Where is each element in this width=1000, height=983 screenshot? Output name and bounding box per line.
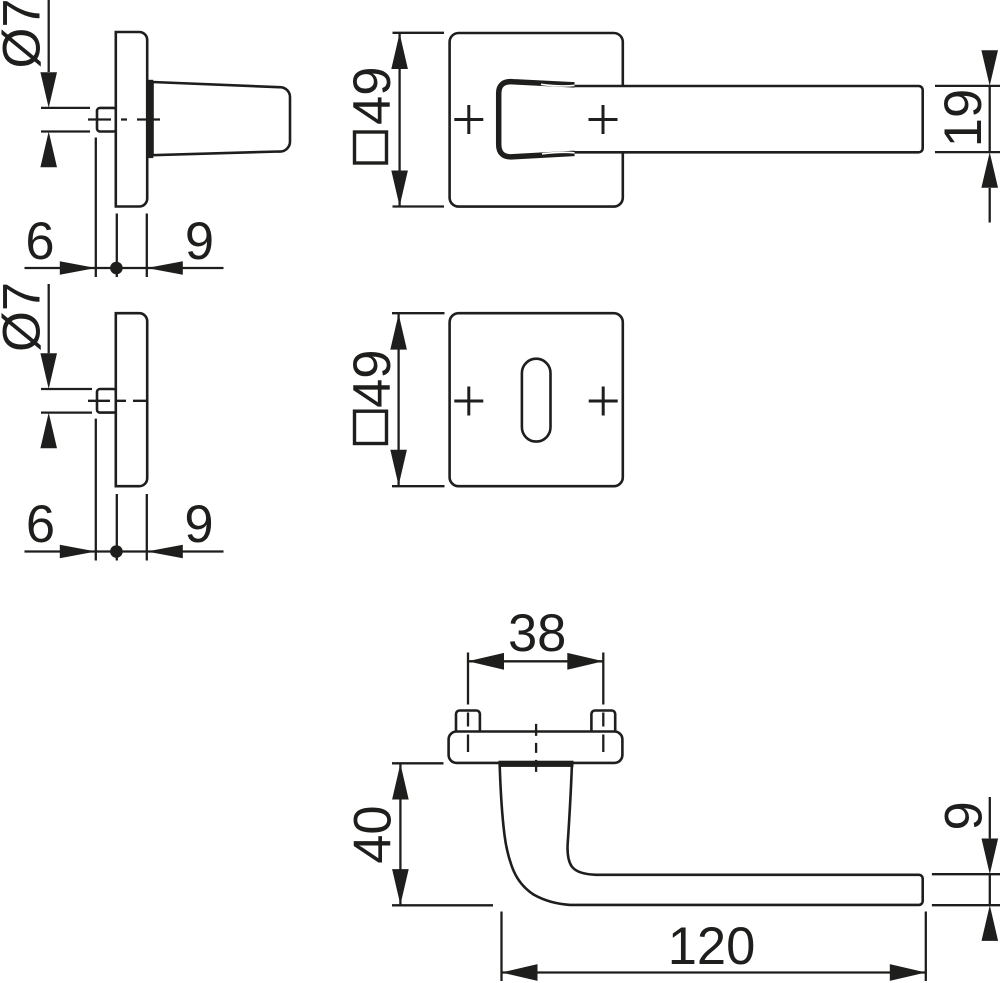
screw mark right (fig4) [589, 387, 618, 416]
svg-text:Ø7: Ø7 [0, 0, 52, 69]
extension tick bottom Ø7 (fig2) [41, 411, 92, 413]
arrow right 6 (fig2) [60, 545, 96, 559]
extension line right 120 (fig5) [925, 912, 927, 982]
arrow up Ø7 (fig1) [40, 132, 57, 168]
dim line Ø7 (fig2) [48, 284, 50, 353]
extension line bottom 19 (fig3) [935, 151, 1000, 153]
square symbol (fig4) [355, 411, 387, 443]
arrow down 49 (fig3) [391, 171, 408, 207]
vertical centerline (fig5) [535, 724, 537, 773]
arrow up 9 (fig5) [982, 905, 999, 941]
extension line post-left (fig2) [95, 419, 97, 561]
svg-text:6: 6 [25, 212, 54, 271]
grip inner edge top (fig3) [541, 84, 575, 86]
arrow left 38 (fig5) [468, 653, 504, 670]
arrow left 9 (fig2) [147, 545, 183, 559]
dim line 19 (fig3) [989, 86, 991, 152]
extension line top 49 (fig4) [392, 312, 445, 314]
arrow down Ø7 (fig2) [40, 353, 57, 389]
extension tick top Ø7 (fig1) [41, 107, 90, 109]
extension line rose-left (fig2) [116, 494, 118, 561]
arrow up 40 (fig5) [392, 764, 409, 800]
svg-text:9: 9 [935, 801, 994, 830]
centerline (fig2) [88, 400, 149, 402]
screw post left (fig5) [456, 711, 480, 733]
junction dot (fig2) [110, 545, 123, 558]
extension line top 49 (fig3) [393, 32, 445, 34]
lever bar (fig3) [574, 86, 923, 152]
dim stub below 19 (fig3) [989, 188, 991, 223]
extension line bottom 9 (fig5) [932, 904, 1000, 906]
arrow down 49 (fig4) [390, 450, 407, 486]
centerline (fig1) [88, 118, 160, 120]
square symbol (fig3) [355, 132, 387, 163]
rose plate side (fig5) [449, 732, 623, 763]
svg-text:38: 38 [508, 604, 566, 663]
arrow right 6 (fig1) [60, 261, 96, 275]
arrow up 49 (fig4) [390, 314, 407, 350]
screw post (fig2) [97, 389, 117, 413]
svg-text:120: 120 [668, 917, 756, 976]
screw mark left (fig3) [454, 105, 483, 134]
rose side profile (fig1) [116, 32, 147, 207]
arrow down 40 (fig5) [392, 869, 409, 905]
arrow right 38 (fig5) [567, 653, 603, 670]
dim line 40 (fig5) [399, 764, 401, 905]
square key rose (fig4) [450, 313, 623, 486]
svg-text:40: 40 [344, 805, 403, 863]
handle grip outline (fig3) [499, 82, 575, 157]
handle neck cone (fig1) [153, 82, 291, 155]
arrow down 19 (fig3) [981, 50, 998, 86]
extension line top 40 (fig5) [392, 762, 444, 764]
extension line top 19 (fig3) [935, 85, 1000, 87]
extension line post-left (fig1) [95, 138, 97, 278]
svg-text:49: 49 [343, 67, 402, 125]
svg-text:9: 9 [184, 495, 213, 554]
svg-text:49: 49 [343, 349, 402, 407]
grip inner edge bottom (fig3) [542, 152, 575, 154]
post centerline right / 38 extension (fig5) [602, 653, 604, 753]
square rose (fig3) [450, 33, 623, 207]
dim line 6/9 (fig1) [25, 267, 224, 269]
arrow down 9 (fig5) [982, 839, 999, 875]
dim line middle 9 (fig5) [989, 874, 991, 905]
extension line rose-right (fig2) [146, 494, 148, 561]
extension line bottom 49 (fig4) [392, 485, 445, 487]
dim line 49 (fig3) [398, 33, 400, 206]
extension line bottom 49 (fig3) [393, 205, 445, 207]
neck flange thick bar (fig5) [499, 761, 574, 767]
extension line bottom 40 (fig5) [392, 904, 493, 906]
svg-text:6: 6 [26, 495, 55, 554]
post centerline left / 38 extension (fig5) [467, 653, 469, 753]
dim line 6/9 (fig2) [25, 550, 224, 552]
arrow up 49 (fig3) [391, 33, 408, 69]
screw mark right (fig3) [589, 105, 618, 134]
extension line rose-right (fig1) [146, 214, 148, 278]
screw mark left (fig4) [454, 387, 483, 416]
arrow up Ø7 (fig2) [40, 413, 57, 449]
extension line top 9 (fig5) [932, 873, 1000, 875]
junction dot (fig1) [110, 262, 123, 275]
extension line left 120 (fig5) [500, 912, 502, 982]
handle neck and lever (fig5) [500, 765, 923, 905]
keyhole slot (fig4) [522, 359, 551, 442]
extension tick bottom Ø7 (fig1) [41, 130, 90, 132]
dim stub above 9 (fig5) [989, 797, 991, 838]
screw post right (fig5) [591, 711, 615, 733]
extension line rose-left (fig1) [116, 214, 118, 278]
arrow right 120 (fig5) [890, 964, 926, 981]
arrow down Ø7 (fig1) [40, 72, 57, 108]
screw post (fig1) [97, 108, 117, 132]
svg-text:Ø7: Ø7 [0, 282, 52, 352]
dim line 38 (fig5) [468, 660, 603, 662]
extension tick top Ø7 (fig2) [41, 388, 92, 390]
dim line 120 (fig5) [502, 971, 926, 973]
svg-text:19: 19 [934, 89, 993, 147]
svg-text:9: 9 [185, 212, 214, 271]
neck base thick bar (fig1) [146, 80, 153, 158]
arrow left 120 (fig5) [502, 964, 538, 981]
arrow up 19 (fig3) [981, 152, 998, 188]
dim line 49 (fig4) [397, 314, 399, 486]
rose side profile (fig2) [116, 313, 147, 486]
dim line Ø7 (fig1) [48, 0, 50, 72]
arrow left 9 (fig1) [147, 261, 183, 275]
